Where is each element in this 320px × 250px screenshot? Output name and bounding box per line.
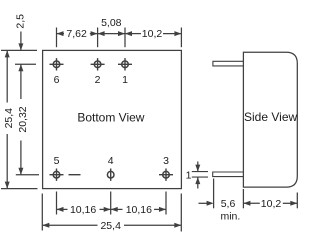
svg-text:6: 6 — [54, 74, 60, 86]
side view top pin — [213, 61, 244, 66]
extension line below pin 3 — [165, 192, 167, 215]
extension line above pin 1 — [124, 28, 126, 48]
extension line left at lower pin row — [16, 174, 39, 176]
bottom view body outline — [43, 50, 182, 188]
extension line below side body left edge — [242, 189, 244, 208]
pin 3 — [163, 171, 170, 178]
svg-text:Side View: Side View — [244, 110, 297, 124]
pin 5 — [53, 171, 60, 178]
dimension 5,08 (pin2 to pin1) — [98, 31, 105, 36]
svg-text:7,62: 7,62 — [66, 28, 87, 40]
extension line above pin 6 — [56, 28, 58, 48]
extension line above pin 2 — [97, 28, 99, 48]
side view bottom pin — [213, 172, 244, 177]
dimension 25,4 horizontal (box width) — [42, 223, 49, 228]
extension line left of box top edge — [1, 49, 37, 51]
dimension 7,62 (pin6 to pin2) — [57, 31, 64, 36]
dimension 25,4 vertical (box height) — [5, 50, 10, 57]
side view body outline — [243, 52, 297, 187]
extension line above box right edge — [180, 28, 182, 48]
extension line below box left edge — [41, 194, 43, 231]
pin 6 — [53, 61, 60, 68]
pin 1 — [122, 61, 129, 68]
svg-text:5,6: 5,6 — [221, 198, 236, 210]
svg-text:5,08: 5,08 — [101, 17, 122, 29]
extension line left of box bottom edge — [1, 188, 38, 190]
dimension 10,2 (side body width) — [243, 201, 250, 206]
svg-text:20,32: 20,32 — [17, 106, 29, 132]
svg-text:10,2: 10,2 — [261, 198, 282, 210]
svg-text:4: 4 — [108, 155, 114, 167]
svg-text:1: 1 — [186, 169, 192, 181]
dimension 5,6 min. (pin length) — [199, 202, 208, 204]
extension line left at upper pin row — [15, 63, 36, 65]
svg-text:10,16: 10,16 — [70, 204, 96, 216]
svg-text:1: 1 — [122, 74, 128, 86]
pin 2 — [94, 61, 101, 68]
svg-text:Bottom View: Bottom View — [77, 110, 144, 124]
extension line below side body right edge — [296, 193, 298, 209]
svg-text:2: 2 — [95, 74, 101, 86]
svg-text:2,5: 2,5 — [15, 14, 27, 29]
svg-text:25,4: 25,4 — [100, 220, 121, 232]
dimension 10,16 (pin4 to pin3) — [111, 207, 118, 212]
extension line below pin left end — [213, 179, 215, 209]
omitted-pin dash between pin 5 and pin 4 — [69, 174, 81, 176]
dimension 10,16 (pin5 to pin4) — [57, 207, 64, 212]
svg-text:25,4: 25,4 — [3, 108, 15, 129]
svg-text:10,16: 10,16 — [126, 204, 152, 216]
dimension 1 (pin thickness) — [192, 171, 208, 173]
svg-text:5: 5 — [54, 155, 60, 167]
extension line below pin 5 — [56, 192, 58, 215]
svg-text:10,2: 10,2 — [142, 28, 163, 40]
svg-text:min.: min. — [220, 210, 240, 222]
dimension 20,32 (upper pin row to lower pin row) — [18, 64, 23, 71]
extension line below pin 4 — [110, 192, 112, 215]
svg-text:3: 3 — [163, 155, 169, 167]
dimension 10,2 (pin1 to box right) — [125, 31, 132, 36]
extension line below box right edge — [180, 194, 182, 232]
pin 4 — [107, 171, 114, 178]
